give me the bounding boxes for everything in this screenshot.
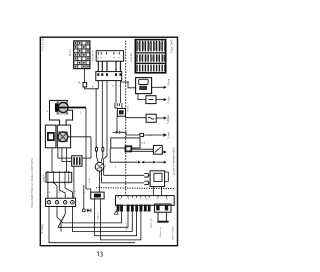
wire lamp feed left (95, 89, 97, 146)
jog w1 to stem (95, 145, 97, 147)
connector pair symbol (138, 161, 141, 164)
fuse block FB (91, 192, 104, 199)
lamp bulb stems (96, 146, 104, 156)
svg-text:W B-W L R: W B-W L R (92, 50, 94, 61)
svg-text:W: W (58, 192, 60, 194)
male spade symbol (144, 181, 148, 184)
svg-text:W-R B: W-R B (69, 49, 72, 56)
arrow A5 (162, 151, 164, 153)
inline connector strip BS (46, 172, 72, 182)
K1 contact blob (139, 86, 147, 90)
svg-text:3: 3 (115, 164, 117, 168)
wire w3 from C2 long down (104, 81, 107, 176)
wire pass (73, 196, 75, 198)
FL inner (154, 173, 162, 181)
svg-text:SB: SB (79, 81, 81, 84)
FL side bracket (165, 172, 169, 181)
crossing jog wires (61, 214, 65, 232)
svg-text:Except for standard vehicle: Except for standard vehicle (173, 147, 176, 175)
left stub symbol (114, 211, 118, 214)
wire c1 (49, 207, 135, 243)
svg-text:W: W (113, 58, 115, 60)
svg-text:No wiring: No wiring (41, 224, 44, 234)
terminal strip TS (46, 198, 76, 206)
svg-text:B: B (118, 58, 120, 60)
wire w4 from C2 to horn (115, 81, 117, 104)
bottom connector housing CH (116, 196, 175, 206)
junction dot (127, 81, 129, 83)
connector pair symbol 2 (153, 161, 156, 164)
switch unit box L1a (45, 125, 56, 148)
wires L1 bottom down to connectors (52, 148, 66, 172)
buzzer wire with diode (83, 185, 85, 209)
svg-text:R: R (140, 199, 142, 201)
grid A pin marks (75, 42, 89, 68)
svg-text:Type 2WD: Type 2WD (169, 39, 173, 53)
junction LV x fuse wire (125, 117, 126, 118)
wire w1 from C2 (97, 81, 99, 89)
wire K1 to D1 (138, 94, 146, 100)
shorting end bar (157, 221, 168, 223)
svg-text:TRANSMITTER (or Choke) (OPTI: TRANSMITTER (or Choke) (OPTION) (30, 158, 34, 208)
wire w5 from C2 to horn (119, 81, 121, 104)
relay K1 outer (136, 78, 152, 94)
flasher unit FL outer (150, 171, 165, 187)
C2 terminals (97, 73, 121, 76)
svg-text:Right stop: Right stop (150, 217, 153, 228)
CH terminal white notches (125, 206, 148, 211)
connector table J2 (grid B) (135, 40, 165, 73)
lamp L2 circle (95, 162, 104, 171)
svg-text:W-B: W-B (141, 142, 146, 144)
wire grid A to R3 (84, 69, 86, 83)
svg-text:B W L R: B W L R (98, 212, 100, 220)
svg-text:L: L (106, 58, 108, 60)
svg-text:HORN: HORN (128, 105, 130, 112)
switch S1 (153, 145, 162, 154)
svg-text:W-B: W-B (148, 135, 153, 137)
wire c2 (57, 207, 122, 223)
wire to FL pin 2 (102, 167, 145, 183)
wire to relay K1 (120, 82, 135, 88)
svg-text:B: B (157, 199, 159, 201)
CH terminal blocks row (117, 205, 151, 212)
right pair wires to end bar (157, 212, 159, 221)
C1 pin labels (97, 58, 120, 60)
wires below TS nested bends (49, 196, 141, 243)
wire H1 bottom down (116, 116, 118, 132)
svg-text:W: W (166, 199, 168, 201)
wire fb1 (95, 199, 137, 236)
svg-text:L: L (134, 199, 136, 201)
connector pair symbol (116, 131, 119, 134)
resistor unit R3 (small box under grid A) (83, 82, 87, 87)
lamp circle with X (58, 132, 68, 142)
bold contact square (48, 133, 54, 140)
svg-text:B: B (128, 199, 130, 201)
svg-text:B: B (100, 58, 102, 60)
long vertical wire LV (dashed) (125, 41, 127, 196)
page number 13 (97, 252, 102, 256)
motor circle (58, 103, 68, 113)
grid B faint mid tones (138, 42, 164, 61)
motor output bold wire (58, 107, 86, 109)
lamp L2 bottom wire (99, 171, 101, 192)
K1 coil box (139, 79, 148, 84)
horn unit H1 prongs (115, 103, 122, 108)
svg-text:Fuse list: Fuse list (130, 53, 133, 62)
motor mount shade (56, 101, 68, 114)
diode unit D1 (146, 96, 156, 104)
svg-text:14 W: 14 W (89, 177, 91, 183)
wire w2 from C2 to lamp stem (101, 81, 103, 147)
wire row 6 with connector pairs (110, 148, 137, 162)
wires BS to terminal strip TS (48, 182, 73, 198)
H1 inner mark (119, 110, 124, 114)
wire H1 to fuse F1 (126, 117, 147, 119)
arrow A1 to horn relay (152, 86, 164, 88)
wires C1 to C2 (98, 61, 120, 71)
svg-text:W: W (97, 58, 99, 60)
svg-text:FIG.13 W: FIG.13 W (41, 38, 45, 51)
svg-text:Figure 3: Figure 3 (125, 222, 128, 231)
relay box K2 (mid) (111, 138, 140, 148)
svg-text:Maker set: Maker set (159, 227, 162, 237)
svg-text:To horn: To horn (168, 78, 171, 86)
lamp mount shade (58, 131, 68, 142)
double wire to switch S1 (132, 148, 153, 150)
arrow A2 (156, 99, 164, 101)
arrow A4 (144, 134, 164, 136)
wire c4 (72, 207, 132, 232)
svg-text:To stop: To stop (168, 96, 171, 104)
wire color labels row (49, 191, 86, 194)
svg-text:E: E (92, 86, 94, 89)
CH pin ticks (118, 196, 166, 198)
motor brush bar (55, 103, 58, 111)
svg-text:BRAKE: BRAKE (42, 174, 45, 182)
wire passing right of TS (73, 166, 75, 196)
horn unit H1 body (117, 109, 125, 117)
wire lamp out down (90, 137, 92, 158)
connector strip C1 (96, 51, 123, 62)
connector CX (hatched) (72, 156, 82, 166)
svg-text:a: a (46, 110, 48, 113)
CH pin labels (119, 199, 168, 201)
svg-text:To turn: To turn (168, 131, 171, 139)
arrow A3 (156, 117, 164, 119)
fuse F1 (146, 114, 156, 122)
C1 pin ticks (98, 52, 119, 55)
grid B cell glyph bars (136, 41, 165, 72)
connector table J1 (grid A) (74, 41, 90, 69)
lamp unit box L1b (57, 125, 70, 148)
wires into connector CX (58, 157, 72, 159)
junction block dark (125, 145, 133, 152)
wire c3 (58, 207, 128, 228)
svg-text:W: W (112, 85, 114, 87)
svg-text:W: W (119, 199, 121, 201)
connector strip C2 (96, 72, 122, 81)
svg-text:PRINT MODE: PRINT MODE (173, 226, 175, 240)
motor unit box M1 (50, 100, 73, 125)
inline connector square (140, 133, 144, 136)
border frame (40, 37, 177, 246)
CH right pair housing (155, 204, 172, 212)
svg-text:R: R (75, 191, 77, 193)
svg-text:3: 3 (105, 164, 107, 168)
svg-text:To lighter: To lighter (167, 114, 170, 124)
svg-text:B: B (49, 192, 51, 194)
terminals (47, 201, 74, 205)
svg-text:L: L (66, 191, 68, 193)
junction node (95, 88, 96, 89)
wire lamp out right (68, 136, 91, 138)
shielded dotted wire (96, 187, 174, 190)
FL to CH wires (153, 187, 155, 196)
wire R3 down and right to node E (85, 87, 99, 89)
wire to FL pin 1 (104, 174, 145, 176)
svg-text:2: 2 (80, 110, 82, 114)
svg-text:G: G (146, 199, 148, 201)
wire M1 output down (85, 108, 87, 189)
male spade symbol (144, 174, 148, 177)
wire fb2 (101, 199, 141, 240)
